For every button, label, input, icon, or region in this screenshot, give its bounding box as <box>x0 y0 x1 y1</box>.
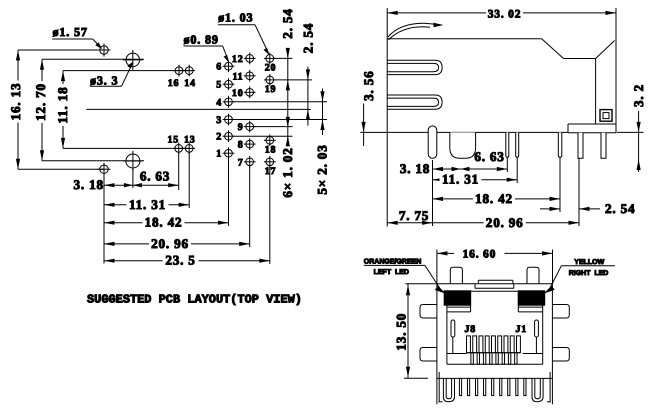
svg-text:13. 50: 13. 50 <box>393 313 408 351</box>
svg-text:YELLOW: YELLOW <box>574 259 604 266</box>
svg-text:6× 1. 02: 6× 1. 02 <box>280 147 295 197</box>
svg-text:2: 2 <box>216 132 222 143</box>
svg-text:ø1. 03: ø1. 03 <box>218 11 253 25</box>
svg-text:18. 42: 18. 42 <box>145 215 183 230</box>
svg-text:ø0. 89: ø0. 89 <box>184 33 219 47</box>
svg-text:15: 15 <box>167 135 179 146</box>
svg-text:19: 19 <box>265 84 277 95</box>
svg-text:J8: J8 <box>465 324 477 335</box>
svg-text:6. 63: 6. 63 <box>140 169 170 184</box>
svg-text:20: 20 <box>265 62 277 73</box>
svg-text:3. 18: 3. 18 <box>74 177 104 192</box>
svg-text:6. 63: 6. 63 <box>474 149 504 164</box>
svg-text:23. 5: 23. 5 <box>165 253 195 268</box>
svg-text:5× 2. 03: 5× 2. 03 <box>315 144 330 194</box>
svg-text:2. 54: 2. 54 <box>280 8 295 38</box>
svg-text:6: 6 <box>216 62 222 73</box>
svg-text:11. 31: 11. 31 <box>442 172 479 187</box>
svg-text:3: 3 <box>216 115 222 126</box>
svg-text:SUGGESTED PCB LAYOUT(TOP VIEW): SUGGESTED PCB LAYOUT(TOP VIEW) <box>87 292 302 306</box>
svg-text:8: 8 <box>238 140 244 151</box>
svg-text:14: 14 <box>184 78 196 89</box>
svg-text:3. 2: 3. 2 <box>631 84 646 107</box>
svg-text:J1: J1 <box>516 324 528 335</box>
svg-text:16. 13: 16. 13 <box>8 83 23 121</box>
svg-text:11. 31: 11. 31 <box>129 197 166 212</box>
svg-text:11. 18: 11. 18 <box>55 86 70 123</box>
svg-text:12. 70: 12. 70 <box>33 83 48 121</box>
svg-text:3. 56: 3. 56 <box>361 71 376 101</box>
svg-text:3. 18: 3. 18 <box>400 161 430 176</box>
svg-text:18. 42: 18. 42 <box>475 191 513 206</box>
svg-text:16: 16 <box>168 78 180 89</box>
svg-text:4: 4 <box>216 97 222 108</box>
svg-text:ø3. 3: ø3. 3 <box>90 74 118 88</box>
svg-text:20. 96: 20. 96 <box>151 236 189 251</box>
svg-text:16. 60: 16. 60 <box>463 248 497 260</box>
svg-text:5: 5 <box>216 80 222 91</box>
svg-text:7. 75: 7. 75 <box>399 208 429 223</box>
svg-text:17: 17 <box>265 166 277 177</box>
svg-text:ø1. 57: ø1. 57 <box>53 25 88 39</box>
svg-text:10: 10 <box>232 88 244 99</box>
svg-text:2. 54: 2. 54 <box>605 201 635 216</box>
svg-text:7: 7 <box>238 157 244 168</box>
svg-text:ORANGE/GREEN: ORANGE/GREEN <box>364 258 422 266</box>
svg-text:20. 96: 20. 96 <box>486 215 524 230</box>
svg-text:1: 1 <box>216 149 222 160</box>
svg-text:9: 9 <box>238 122 244 133</box>
svg-text:12: 12 <box>232 54 244 65</box>
svg-text:18: 18 <box>265 144 277 155</box>
svg-text:2. 54: 2. 54 <box>301 23 316 53</box>
svg-text:LEFT LED: LEFT LED <box>374 269 409 276</box>
svg-text:13: 13 <box>184 135 196 146</box>
svg-text:RIGHT LED: RIGHT LED <box>569 270 609 277</box>
svg-text:33. 02: 33. 02 <box>488 8 522 20</box>
svg-text:11: 11 <box>232 71 243 82</box>
